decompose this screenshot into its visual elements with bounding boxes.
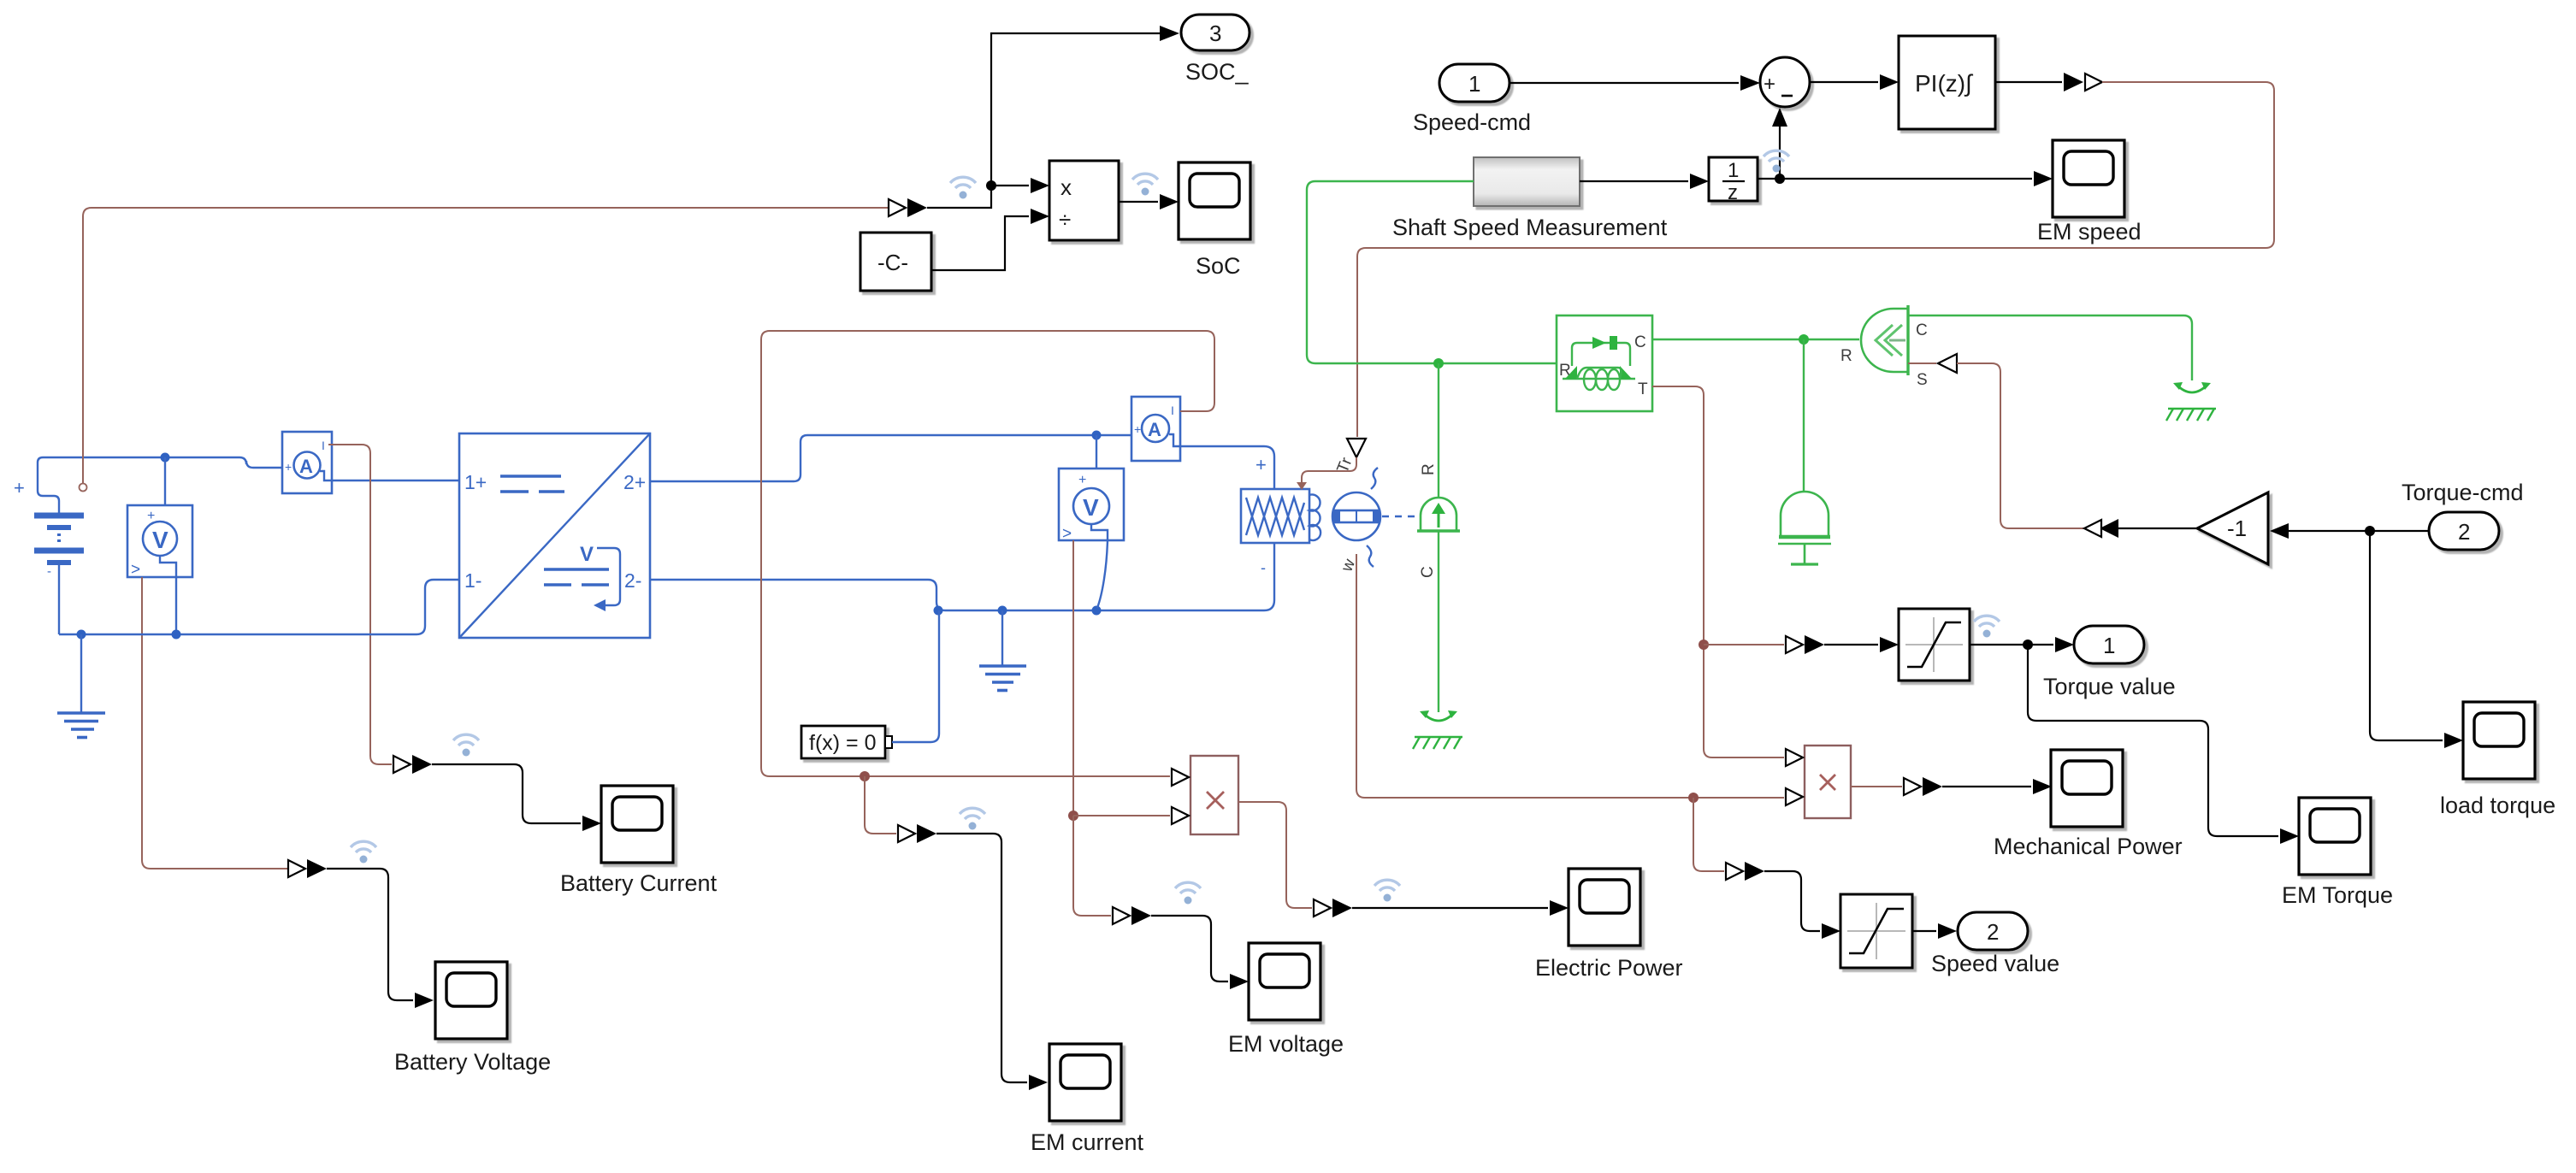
arrowhead into saturation 1 <box>1880 637 1899 652</box>
arrowhead into Battery Voltage scope <box>415 993 434 1008</box>
saturation block 2 <box>1840 894 1912 968</box>
wire motor speed w (physical signal) <box>1356 554 1784 798</box>
svg-text:>: > <box>131 561 140 579</box>
svg-text:SoC: SoC <box>1196 253 1241 279</box>
gain output boundary arrows left <box>2084 519 2118 538</box>
EM voltage boundary arrows <box>1113 906 1151 925</box>
svg-text:-: - <box>1261 559 1266 576</box>
wire saturation 1 to outport 1 <box>1970 644 2053 645</box>
svg-text:I: I <box>322 439 325 452</box>
wire PI feedback to motor Tr (physical signal) <box>1357 82 2274 437</box>
saturation block 1 <box>1899 609 1970 681</box>
wire A1 current output to Battery Current display (physical signal) <box>328 445 392 764</box>
wire to Mechanical Power scope <box>1942 786 2031 787</box>
arrowhead into sum <box>1740 75 1760 91</box>
svg-text:EM Torque: EM Torque <box>2282 882 2393 908</box>
svg-text:3: 3 <box>1209 21 1221 46</box>
PI output boundary arrows <box>2064 73 2102 91</box>
rotational ground RG1 <box>1413 710 1462 749</box>
wire PI output <box>1995 81 2062 83</box>
wifi badge battery current <box>453 734 479 756</box>
arrowhead into PI controller <box>1880 74 1899 90</box>
svg-text:+: + <box>14 477 25 498</box>
arrowhead up into sum <box>1772 108 1787 127</box>
svg-text:V: V <box>580 543 594 566</box>
battery voltage boundary arrows <box>288 859 327 878</box>
wire V1 minus to bottom bus <box>175 577 177 634</box>
ammeter A2 (EM current) <box>1131 397 1180 461</box>
arrowhead into outport 2 <box>1938 923 1957 939</box>
svg-text:Mechanical Power: Mechanical Power <box>1994 834 2183 859</box>
rotational friction block F1 <box>1557 315 1652 411</box>
wire SOC numerator to divide block <box>927 33 1160 208</box>
wire converter 2+ to ammeter A2 <box>650 435 1133 481</box>
arrowhead into 1/z <box>1690 174 1709 189</box>
svg-text:S: S <box>1917 371 1928 389</box>
wire 1/z to EM speed scope <box>1758 178 2032 180</box>
svg-text:V: V <box>1083 494 1099 521</box>
wifi badge 1/z output <box>1764 150 1789 172</box>
wire saturation 2 to outport 2 <box>1912 930 1936 932</box>
scope EM voltage <box>1249 943 1320 1020</box>
mech power boundary arrows <box>1904 777 1942 796</box>
wire to Battery Voltage scope <box>327 869 413 1000</box>
wifi badge electric power <box>1374 880 1400 901</box>
arrowhead into outport 1 <box>2055 637 2074 652</box>
svg-text:C: C <box>1916 321 1928 339</box>
wire inport 1 to sum <box>1510 82 1739 84</box>
wire electric product output (physical signal) <box>1238 802 1312 908</box>
motor M1 coil <box>1309 495 1320 541</box>
svg-text:2: 2 <box>2458 519 2470 545</box>
junction 1/z output <box>1775 174 1785 184</box>
arrowhead into Mechanical Power scope <box>2033 779 2052 794</box>
arrowhead into load torque scope <box>2444 733 2463 748</box>
svg-text:Electric Power: Electric Power <box>1535 955 1683 981</box>
wire to saturation 2 <box>1764 871 1820 931</box>
motor M1 port labels Tr and w <box>1334 455 1360 575</box>
svg-text:1-: 1- <box>464 569 482 592</box>
ideal rotational motion sensor S1 <box>1840 305 1928 389</box>
arrowhead onto winding <box>1297 482 1307 490</box>
wire A2 current output to EM current display (physical signal) <box>761 331 1214 776</box>
svg-text:C: C <box>1419 566 1437 578</box>
hollow arrowhead into sensor S <box>1938 354 1957 373</box>
svg-text:Speed value: Speed value <box>1931 951 2059 976</box>
svg-text:EM current: EM current <box>1031 1129 1144 1155</box>
wifi badge saturation 1 <box>1974 616 2000 637</box>
wire branch to EM current display <box>865 776 896 834</box>
wire top bus battery to ammeter A1 <box>86 457 282 468</box>
svg-text:z: z <box>1728 181 1738 204</box>
motor M1 stator winding <box>1241 489 1309 543</box>
svg-text:I: I <box>1171 404 1174 417</box>
svg-text:+: + <box>285 460 292 474</box>
wire -C- to divide input 2 <box>931 216 1029 270</box>
ground G1 (battery) <box>57 634 105 738</box>
svg-text:A: A <box>1148 419 1161 440</box>
scope EM current <box>1049 1044 1121 1121</box>
hollow arrowhead product input 2 <box>1786 788 1803 805</box>
svg-text:PI(z)∫: PI(z)∫ <box>1915 70 1974 97</box>
wire torque source C to rotational ground <box>1438 531 1439 712</box>
unit delay block 1/z <box>1709 157 1758 204</box>
svg-text:load torque: load torque <box>2440 793 2555 818</box>
battery charge tap node <box>80 484 87 492</box>
torque source TS1 <box>1417 498 1460 531</box>
svg-text:+: + <box>1256 454 1267 475</box>
junction EM voltage signal <box>1068 810 1078 821</box>
wire converter 2- to bottom bus EM side <box>650 543 1274 610</box>
scope EM Torque <box>2299 798 2371 875</box>
arrowhead into SoC scope <box>1160 194 1179 209</box>
wire A2 out to motor positive terminal <box>1180 446 1274 489</box>
svg-text:SOC_: SOC_ <box>1185 59 1250 85</box>
wire junction to EM Torque scope <box>2028 645 2278 836</box>
arrowhead into divide input 1 <box>1031 178 1049 193</box>
wire junction to saturation arrows <box>1704 644 1784 645</box>
wifi badge EM voltage <box>1175 882 1201 904</box>
wifi badge battery voltage <box>351 841 376 863</box>
outport 2 Speed value <box>1958 912 2028 950</box>
svg-text:-1: -1 <box>2227 516 2247 541</box>
svg-text:-: - <box>47 564 51 579</box>
scope load torque <box>2463 702 2535 779</box>
wire V1 measurement output (physical signal) <box>142 577 288 869</box>
svg-text:f(x) = 0: f(x) = 0 <box>809 731 877 755</box>
junction top bus / V1 <box>161 453 170 463</box>
hollow arrowhead electric product input 2 <box>1172 807 1189 824</box>
wire battery charge tap to SOC divider (physical signal) <box>83 208 889 483</box>
wire to Electric Power scope <box>1352 907 1548 909</box>
voltage sensor V1 (battery voltage) <box>127 505 192 579</box>
junction bottom bus / ground <box>77 630 86 640</box>
dashed link rotor to torque source <box>1382 516 1418 517</box>
inertia J1 <box>1778 492 1831 564</box>
SOC signal conversion arrows <box>889 198 927 217</box>
electric power boundary arrows <box>1314 899 1352 917</box>
wire junction down to inertia <box>1803 339 1805 491</box>
svg-text:Battery Current: Battery Current <box>560 870 718 896</box>
constant block -C- <box>860 233 931 291</box>
junction torque signal <box>1699 640 1709 650</box>
svg-text:C: C <box>1634 333 1646 351</box>
battery B1 <box>34 516 84 579</box>
svg-text:+: + <box>1134 422 1141 436</box>
junction bus / V2 minus <box>1092 606 1102 616</box>
junction speed signal <box>1688 793 1699 803</box>
svg-text:x: x <box>1061 174 1072 200</box>
svg-text:+: + <box>147 509 155 523</box>
wire to EM current scope <box>936 834 1027 1082</box>
svg-text:Battery Voltage: Battery Voltage <box>394 1049 551 1075</box>
svg-text:Torque-cmd: Torque-cmd <box>2402 480 2524 505</box>
wire to saturation 1 <box>1824 644 1878 645</box>
svg-text:V: V <box>152 527 168 553</box>
junction torque value <box>2023 640 2033 650</box>
svg-text:Shaft Speed Measurement: Shaft Speed Measurement <box>1392 215 1668 240</box>
arrowhead into EM voltage scope <box>1230 974 1249 989</box>
gain block -1 <box>2197 492 2268 564</box>
svg-text:2-: 2- <box>624 569 641 592</box>
wire EM voltage junction to product input 2 <box>1073 815 1170 816</box>
motor M1 terminal labels <box>1256 454 1267 576</box>
hollow arrowhead product input 1 <box>1786 749 1803 766</box>
scope Battery Voltage <box>435 962 507 1039</box>
sum block <box>1760 57 1810 107</box>
junction green R net <box>1433 358 1444 368</box>
wire sum to PI controller <box>1810 81 1878 83</box>
arrowhead into saturation 2 <box>1822 923 1840 939</box>
svg-text:1: 1 <box>1728 159 1739 182</box>
EM current boundary arrows <box>898 824 936 843</box>
svg-text:+: + <box>1764 73 1775 96</box>
wire junction to V1 plus <box>164 457 166 522</box>
ground G2 (EM side) <box>979 610 1026 691</box>
junction bus / ground G2 <box>998 606 1007 616</box>
wire friction C to sensor R <box>1652 339 1859 340</box>
wire junction down to torque source <box>1438 363 1439 497</box>
wire V2 measurement output (physical signal) <box>1072 540 1074 816</box>
wire Torque-cmd to gain <box>2289 530 2429 532</box>
motor M1 rotor <box>1332 492 1380 540</box>
arrowhead into divide input 2 <box>1031 209 1049 224</box>
svg-text:T: T <box>1638 380 1648 398</box>
svg-text:A: A <box>299 456 313 477</box>
svg-text:R: R <box>1420 463 1438 475</box>
torque boundary arrows <box>1786 635 1824 654</box>
wire f(x)=0 to bus <box>892 610 939 742</box>
svg-text:÷: ÷ <box>1059 207 1071 233</box>
voltage sensor V2 (EM voltage) <box>1059 469 1124 543</box>
svg-text:2: 2 <box>1987 919 1999 945</box>
wifi badge SOC input <box>950 177 976 198</box>
motor M1 shaft squiggles <box>1367 468 1378 567</box>
junction bottom bus / V1 <box>172 630 181 640</box>
wire -1 gain to sensor S (physical signal) <box>1957 363 2084 528</box>
junction EM current signal branch <box>860 771 870 781</box>
shaft speed measurement block <box>1474 157 1580 206</box>
arrowhead into EM speed scope <box>2034 171 2053 186</box>
wire to EM voltage scope <box>1151 916 1228 981</box>
scope Battery Current <box>601 786 673 863</box>
scope SoC <box>1179 162 1250 239</box>
wire Tr triangle to motor winding <box>1302 457 1356 485</box>
arrowhead into gain <box>2270 523 2289 539</box>
svg-text:EM speed: EM speed <box>2037 219 2142 245</box>
arrowhead into Battery Current scope <box>582 816 601 831</box>
wire product output (physical signal) <box>1851 786 1902 787</box>
svg-text:1: 1 <box>2103 633 2115 658</box>
wire gain output <box>2118 528 2197 529</box>
product block electric power <box>1191 756 1238 834</box>
divide block x/÷ <box>1049 161 1119 240</box>
wire friction T output (physical signal) <box>1652 386 1784 757</box>
arrowhead into EM Torque scope <box>2280 828 2299 844</box>
svg-text:2+: 2+ <box>623 471 646 493</box>
speed boundary arrows <box>1726 862 1764 881</box>
junction green C net <box>1799 334 1809 345</box>
hollow arrowhead electric product input 1 <box>1172 769 1189 786</box>
wire speed junction to speed arrows <box>1693 798 1724 871</box>
arrowhead into outport 3 <box>1160 26 1179 41</box>
svg-text:1: 1 <box>1468 71 1480 97</box>
arrowhead into EM current scope <box>1029 1075 1048 1090</box>
wifi badge divide output <box>1132 174 1158 195</box>
wire sensor C to rotational ground 2 <box>1908 315 2192 380</box>
svg-text:Torque value: Torque value <box>2043 674 2176 699</box>
scope Electric Power <box>1569 869 1640 946</box>
junction bus / f(x)=0 <box>934 606 943 616</box>
wire V2 minus to bus (curved) <box>1097 540 1108 608</box>
junction Torque-cmd <box>2365 526 2375 536</box>
outport 1 Torque value <box>2074 626 2144 663</box>
solver configuration block f(x)=0 <box>801 726 892 758</box>
junction 2+ bus / V2 <box>1092 431 1102 440</box>
svg-text:EM voltage: EM voltage <box>1228 1031 1344 1057</box>
PI controller block PI(z) <box>1899 36 1995 129</box>
junction SOC numerator <box>986 180 996 191</box>
wire shaft speed block to 1/z <box>1580 180 1688 182</box>
svg-text:+: + <box>1078 473 1086 487</box>
wire battery positive to top bus <box>38 457 86 513</box>
wifi badge EM current <box>960 808 985 829</box>
wire shaft R net green main <box>1307 181 1557 363</box>
svg-text:R: R <box>1840 347 1852 365</box>
inport 2 Torque-cmd <box>2429 512 2499 550</box>
outport 3 SOC_ <box>1181 15 1250 50</box>
wire to Battery Current scope <box>432 764 581 823</box>
wire sensor S output (physical signal) <box>1908 363 1936 364</box>
wire junction up to sum minus input <box>1779 127 1781 179</box>
product block mechanical power <box>1805 746 1851 818</box>
svg-text:>: > <box>1062 525 1072 543</box>
svg-text:1+: 1+ <box>464 471 487 493</box>
arrowhead into Electric Power scope <box>1550 900 1569 916</box>
rotational ground RG2 <box>2166 382 2216 421</box>
torque reference triangle Tr <box>1347 439 1366 457</box>
bottom bus battery side <box>59 565 459 634</box>
ammeter A1 (battery current) <box>282 432 332 493</box>
battery current boundary arrows <box>393 755 432 774</box>
scope Mechanical Power <box>2051 750 2123 827</box>
DC-DC converter U1 <box>459 433 650 638</box>
svg-text:-C-: -C- <box>877 250 908 275</box>
wire junction to load torque scope <box>2370 531 2443 740</box>
wire divide to SoC scope <box>1119 201 1158 203</box>
wire junction to V2 plus <box>1096 435 1097 488</box>
svg-text:Speed-cmd: Speed-cmd <box>1413 109 1531 135</box>
wire A1 out to converter 1+ <box>332 480 459 481</box>
scope EM speed <box>2053 140 2124 217</box>
inport 1 Speed-cmd <box>1439 64 1510 102</box>
wire junction to divide input 1 <box>991 185 1029 186</box>
wire EM voltage branch down (physical signal) <box>1073 816 1111 916</box>
